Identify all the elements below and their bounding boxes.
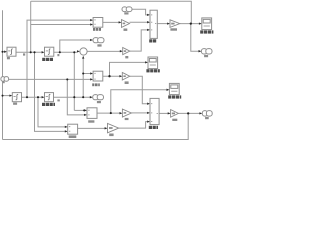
arrowheads — [4, 14, 202, 133]
wire: vertical x=34.5 down to F2 input2 — [35, 52, 67, 131]
wire: I3 out run — [22, 96, 43, 98]
integrator I4 — [45, 93, 54, 102]
label 求和 — [149, 39, 156, 42]
oval IN1 — [1, 77, 9, 82]
label under F1 — [88, 120, 94, 122]
wire: U1 output up to S2 input3 — [119, 122, 147, 129]
wire: left feedback vertical x=2.5 — [2, 10, 4, 139]
wire: I2 output run to sum circle — [54, 51, 77, 53]
Fcn block F1 — [87, 108, 97, 119]
oval O4 (x3) — [93, 95, 104, 100]
wire: vertical x=38 down to F2 input1 — [38, 97, 66, 127]
label 积分器 — [42, 58, 53, 61]
scope SC2 — [148, 57, 158, 69]
wire: branch to XY block2 input1 — [83, 73, 91, 75]
wire: osc oval output into S1 input1 — [132, 9, 148, 15]
gain K3 — [123, 48, 130, 55]
gain K2 — [122, 109, 131, 117]
wire: sum circle output to gain K3 — [87, 50, 121, 52]
gain U1 — [108, 123, 119, 132]
wire: I4 out run to oval O4 — [54, 96, 91, 98]
wire: K2 output to S2 input2 — [131, 112, 147, 114]
wire: I1 output run y=52.3 — [16, 51, 43, 53]
sum block S1 — [150, 10, 157, 38]
wire: into integrator I1 — [3, 51, 6, 53]
label under F2 — [69, 135, 77, 138]
gain M2 — [171, 110, 179, 118]
node dots — [2, 22, 192, 114]
gain M1 — [170, 20, 180, 28]
XY block B2 — [93, 71, 103, 81]
wire: M2 output to out oval O3 — [178, 112, 200, 114]
wire: branch down to out oval O1 — [191, 24, 200, 52]
wire: dot branch to F1 input1 — [74, 109, 85, 111]
integrator I3 — [12, 93, 21, 102]
gain K1 — [122, 73, 130, 81]
wire: branch up to out oval O2 — [60, 40, 90, 52]
wire: K3 output up into sum block S1 input3 — [130, 30, 149, 51]
wire: sum circle bottom feed x=83.2 — [82, 58, 84, 97]
label under B1 — [93, 28, 101, 31]
wire: branch to XY block1 input2 — [31, 24, 91, 26]
Fcn block F2 — [68, 124, 78, 134]
wire: XY block1 output to gain C1 — [103, 21, 120, 23]
XY block B1 — [93, 18, 103, 28]
sum block S2 — [150, 98, 159, 124]
label 求和1 — [149, 126, 158, 129]
wire: S1 output to gain M1 — [157, 23, 168, 25]
label 示波器2 — [146, 69, 159, 72]
sum circle — [80, 48, 87, 55]
label 示波器1 — [168, 95, 181, 98]
gain C1 — [122, 20, 130, 28]
wire: bottom feedback run — [3, 113, 189, 139]
wire: M1 output to scope SC0 — [180, 23, 200, 25]
wire: branch up to scope SC2 — [110, 62, 147, 76]
oval O1 (x1 dot) — [201, 49, 212, 54]
label 示波器 — [200, 30, 213, 33]
wire: vertical x=30.7 to mid wire — [30, 1, 32, 52]
wire: vertical x=74.3 — [73, 52, 75, 110]
scope SC1 — [169, 83, 179, 94]
label under B2 — [92, 83, 100, 86]
wire: vertical x=27 — [27, 20, 91, 97]
wire: In oval run to XY block2 input2 — [9, 78, 92, 80]
scope SC0 — [202, 18, 212, 30]
wire: C1 output to S1 input2 — [130, 21, 149, 23]
wire: into integrator I3 — [3, 95, 11, 97]
label 积分器1 — [42, 103, 55, 106]
wire: S2 output to gain M2 — [159, 112, 169, 114]
wire: branch down to scope SC1 — [111, 90, 168, 113]
wire: XY block2 output to gain K1 — [103, 75, 121, 77]
tiny gray labels — [3, 12, 209, 136]
wire: top feedback run y=1.2 — [31, 1, 192, 23]
oval O3 (x2 dot) — [202, 111, 212, 117]
integrator I2 — [45, 47, 54, 56]
wire: In oval branch to F1 input2 — [67, 79, 85, 115]
wire: F2 output to gain U1 — [78, 127, 106, 129]
wire: K1 output down to S2 input1 — [130, 76, 147, 104]
oval O2 (x1) — [93, 38, 104, 43]
oval OSC (top source) — [122, 7, 132, 12]
integrator I1 — [7, 47, 16, 56]
wire: F1 output to gain K2 — [97, 112, 121, 114]
